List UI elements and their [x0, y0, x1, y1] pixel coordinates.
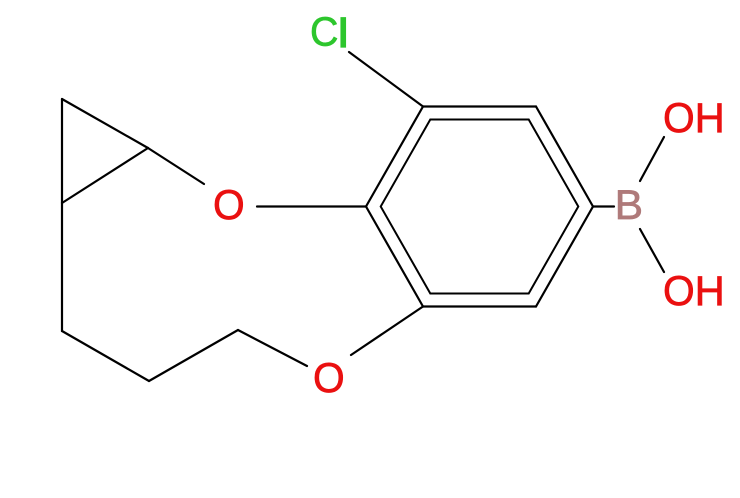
- svg-text:H: H: [695, 267, 725, 314]
- wire bond V1 upper arm: [62, 99, 148, 148]
- svg-text:H: H: [695, 94, 725, 141]
- wire ring edge LL-L: [366, 207, 423, 307]
- wire bond R-B: [593, 205, 614, 207]
- wire chain down-right: [62, 331, 149, 381]
- wire bond B-OH bottom: [640, 229, 664, 272]
- svg-text:C: C: [310, 10, 338, 55]
- svg-text:O: O: [213, 182, 245, 228]
- wire chain up-right: [149, 330, 238, 381]
- wire vertical left: [61, 99, 63, 331]
- svg-text:l: l: [337, 11, 349, 56]
- wire bond UL-Cl: [349, 52, 423, 107]
- wire bond L-O left: [257, 205, 366, 207]
- wire ring edge L-UL: [366, 107, 423, 207]
- wire ring edge UL-UR: [423, 105, 536, 107]
- wire ring edge UR-R: [536, 107, 593, 207]
- svg-text:O: O: [663, 95, 695, 141]
- wire bond V1 lower arm: [62, 148, 148, 203]
- svg-text:B: B: [615, 181, 643, 228]
- wire bond O-V1: [148, 148, 204, 184]
- wire ring edge R-LR: [536, 207, 593, 307]
- wire chain to O bottom: [238, 330, 307, 366]
- svg-text:O: O: [663, 268, 695, 314]
- svg-text:O: O: [313, 355, 345, 401]
- wire bond B-OH top: [640, 137, 664, 181]
- wire bond O bottom-LL: [351, 307, 423, 356]
- wire ring edge LR-LL: [423, 305, 536, 307]
- wire ring inner hexagon: [381, 120, 579, 294]
